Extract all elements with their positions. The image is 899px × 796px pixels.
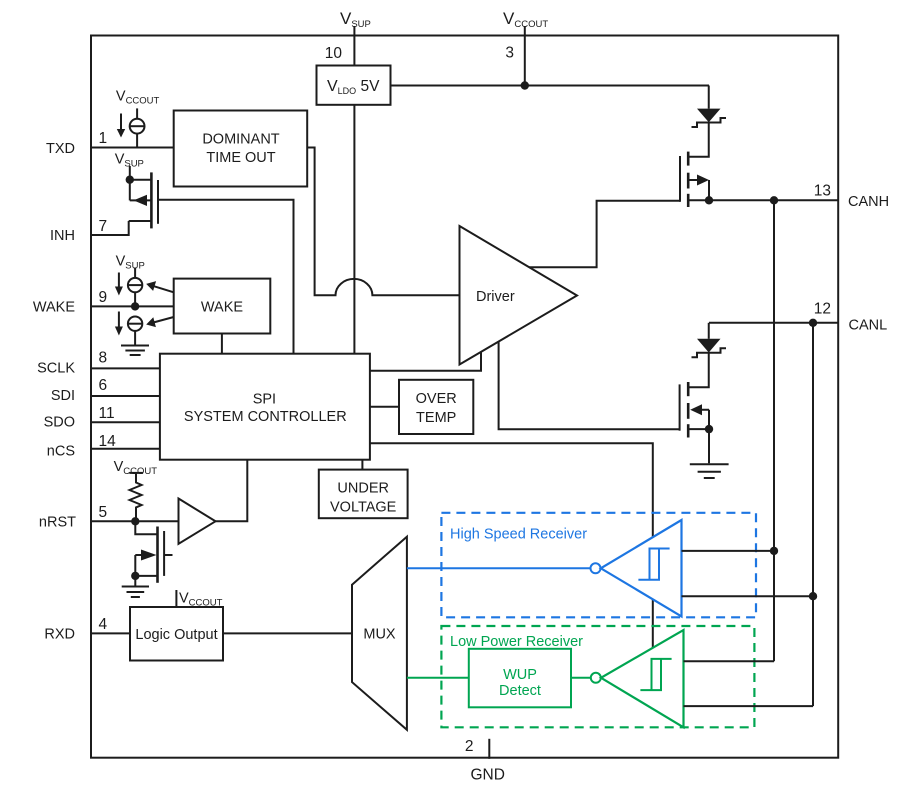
svg-text:GND: GND bbox=[471, 767, 505, 784]
svg-text:Detect: Detect bbox=[499, 683, 541, 699]
svg-text:11: 11 bbox=[99, 405, 115, 422]
svg-text:WAKE: WAKE bbox=[33, 300, 75, 316]
svg-text:2: 2 bbox=[465, 738, 474, 755]
svg-text:SCLK: SCLK bbox=[37, 360, 75, 376]
svg-text:TXD: TXD bbox=[46, 141, 75, 157]
svg-text:13: 13 bbox=[814, 183, 831, 200]
svg-text:nRST: nRST bbox=[39, 515, 76, 531]
svg-text:DOMINANT: DOMINANT bbox=[202, 132, 279, 148]
svg-text:High Speed Receiver: High Speed Receiver bbox=[450, 527, 587, 543]
svg-text:12: 12 bbox=[814, 301, 831, 318]
svg-text:MUX: MUX bbox=[363, 627, 396, 643]
svg-text:9: 9 bbox=[99, 289, 108, 306]
svg-text:VOLTAGE: VOLTAGE bbox=[330, 500, 397, 516]
svg-text:Low Power Receiver: Low Power Receiver bbox=[450, 634, 583, 650]
svg-text:CANL: CANL bbox=[849, 318, 888, 334]
svg-text:5: 5 bbox=[99, 504, 108, 521]
svg-text:TEMP: TEMP bbox=[416, 410, 456, 426]
svg-text:INH: INH bbox=[50, 228, 75, 244]
svg-text:SYSTEM CONTROLLER: SYSTEM CONTROLLER bbox=[184, 409, 347, 425]
svg-text:10: 10 bbox=[325, 45, 343, 62]
svg-text:14: 14 bbox=[99, 433, 117, 450]
svg-text:WAKE: WAKE bbox=[201, 300, 243, 316]
svg-text:3: 3 bbox=[505, 45, 514, 62]
svg-text:CANH: CANH bbox=[848, 194, 889, 210]
svg-text:RXD: RXD bbox=[44, 627, 75, 643]
svg-text:SDI: SDI bbox=[51, 388, 75, 404]
svg-text:7: 7 bbox=[99, 218, 108, 235]
svg-text:Driver: Driver bbox=[476, 289, 515, 305]
svg-text:SDO: SDO bbox=[44, 414, 75, 430]
svg-text:6: 6 bbox=[99, 377, 108, 394]
svg-text:1: 1 bbox=[99, 130, 108, 147]
svg-text:8: 8 bbox=[99, 350, 108, 367]
svg-text:TIME OUT: TIME OUT bbox=[206, 150, 275, 166]
svg-text:WUP: WUP bbox=[503, 667, 537, 683]
svg-text:OVER: OVER bbox=[416, 391, 457, 407]
svg-text:UNDER: UNDER bbox=[337, 481, 389, 497]
svg-text:SPI: SPI bbox=[253, 391, 276, 407]
svg-text:4: 4 bbox=[99, 616, 108, 633]
svg-text:nCS: nCS bbox=[47, 444, 75, 460]
svg-text:Logic Output: Logic Output bbox=[135, 627, 217, 643]
